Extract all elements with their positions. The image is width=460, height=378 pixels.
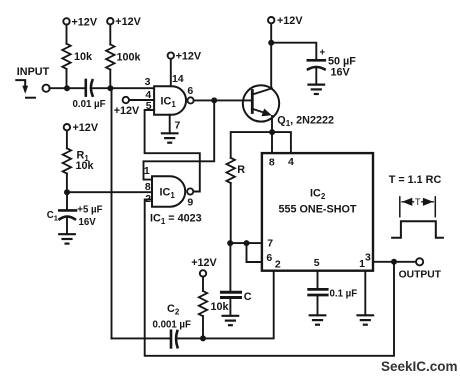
svg-text:3: 3	[145, 76, 151, 88]
svg-text:5: 5	[146, 100, 152, 112]
svg-text:+12V: +12V	[73, 122, 99, 134]
svg-text:9: 9	[187, 197, 193, 209]
wire C to ground	[229, 299, 231, 316]
wire to bottom 10k	[202, 277, 204, 291]
svg-text:T: T	[415, 197, 421, 207]
wire pin 6 branch	[247, 243, 262, 262]
ground 0.1uF	[310, 315, 326, 324]
svg-text:+12V: +12V	[191, 257, 217, 269]
wire node down to C2	[111, 88, 113, 338]
svg-text:+12V: +12V	[72, 16, 98, 28]
Q1 emitter diagonal	[252, 109, 266, 113]
pin 14 +12V terminal	[168, 52, 174, 58]
input terminal	[43, 85, 50, 92]
svg-text:+12V: +12V	[115, 16, 141, 28]
wire node to C	[229, 243, 231, 291]
wire 555 pin 3 to output	[373, 261, 416, 263]
ground C1	[59, 234, 75, 243]
svg-text:+12V: +12V	[176, 51, 202, 63]
Q1 emitter arrowhead	[262, 109, 272, 117]
svg-text:10k: 10k	[76, 160, 95, 172]
wire feedback gate1out to gate2 pin1	[144, 100, 215, 179]
svg-text:IC1 = 4023: IC1 = 4023	[150, 213, 202, 227]
wire 100k to node	[109, 70, 111, 89]
ground C	[223, 316, 239, 325]
svg-text:16V: 16V	[331, 66, 351, 78]
svg-text:4: 4	[288, 156, 294, 168]
waveform tick right	[434, 197, 436, 217]
Q1 collector diagonal	[252, 88, 272, 94]
555 pin 1 wire	[364, 271, 366, 316]
wire node to C1	[66, 192, 68, 209]
resistor R1 10k	[63, 148, 71, 173]
ground gate1 pin7	[162, 133, 178, 142]
+12V terminal collector	[268, 17, 274, 23]
node emitter/R/pin8/pin4	[269, 129, 275, 135]
svg-text:R: R	[237, 164, 245, 176]
wire cap to gate1 pin3	[92, 87, 154, 89]
wire emitter node to R	[231, 132, 272, 158]
555 pin 5 wire	[317, 271, 319, 288]
wire pin 14	[170, 59, 172, 86]
node gate1 out / base / feedback	[211, 97, 217, 103]
output terminal	[416, 258, 423, 265]
svg-text:16V: 16V	[79, 217, 97, 228]
IC2 555 box	[262, 153, 373, 271]
wire +12V to 10k	[66, 25, 68, 44]
node cap/100k	[107, 85, 113, 91]
wire 50uF to ground	[315, 68, 317, 85]
svg-text:5: 5	[314, 257, 320, 269]
svg-text:0.001 µF: 0.001 µF	[153, 320, 192, 331]
ground 50uF	[309, 85, 325, 94]
wire +12V to 100k	[109, 25, 111, 45]
svg-text:14: 14	[172, 73, 184, 85]
svg-text:10k: 10k	[211, 301, 230, 313]
capacitor 0.1uF	[309, 289, 328, 295]
waveform dimension arrows	[402, 201, 433, 203]
capacitor C1 +5uF 16V	[59, 210, 76, 219]
svg-text:+: +	[319, 47, 325, 58]
svg-text:+5 µF: +5 µF	[77, 204, 102, 215]
wire C1 to ground	[66, 218, 68, 235]
svg-text:8: 8	[269, 157, 275, 169]
svg-text:6: 6	[266, 252, 272, 264]
svg-text:100k: 100k	[117, 51, 142, 63]
svg-text:0.01 µF: 0.01 µF	[73, 99, 106, 110]
+12V terminal bottom 10k	[200, 270, 206, 276]
Q1 base bar	[251, 91, 254, 113]
pin 4 +12V terminal	[123, 97, 129, 103]
gate1 output bubble	[188, 97, 194, 103]
svg-text:OUTPUT: OUTPUT	[399, 269, 442, 280]
wire R1 to node	[66, 174, 68, 193]
wire to R1	[66, 131, 68, 149]
svg-text:1: 1	[144, 165, 150, 177]
op: NAND gate U1a body	[154, 86, 186, 115]
wire pin4	[129, 99, 154, 101]
node collector/50uF	[268, 40, 274, 46]
node output feedback	[391, 259, 397, 265]
wire C2 line right to 555 pin 2	[178, 271, 274, 339]
svg-text:3: 3	[365, 252, 371, 264]
waveform T label	[414, 197, 421, 206]
resistor R	[227, 158, 235, 183]
wire 10k to input node	[66, 69, 68, 88]
wire input to cap	[49, 87, 84, 89]
waveform tick left	[399, 197, 401, 217]
svg-text:7: 7	[267, 238, 273, 250]
wire R down to pin7 node	[230, 183, 232, 243]
resistor 10k bottom	[199, 291, 207, 316]
waveform pulse	[392, 221, 443, 238]
capacitor C2 0.001uF	[171, 331, 178, 348]
svg-text:+12V: +12V	[114, 105, 140, 117]
wire gate1 output to transistor base	[194, 99, 253, 101]
resistor 100k	[106, 44, 114, 69]
svg-text:8: 8	[145, 181, 151, 193]
svg-text:SeekIC.com: SeekIC.com	[381, 359, 458, 374]
capacitor 0.01 uF	[86, 80, 93, 96]
resistor 10k (input pullup)	[62, 44, 70, 69]
capacitor 50uF 16V	[308, 60, 325, 69]
svg-text:+12V: +12V	[277, 15, 303, 27]
pin 2 wire to output feedback	[145, 200, 394, 356]
node 10k/C2	[200, 335, 206, 341]
pin 8 wire from R1/C1 node	[67, 191, 152, 193]
wire emitter node to 555 pin 4	[272, 132, 291, 153]
wire emitter node to 555 pin 8	[271, 132, 273, 153]
+12V terminal (100k)	[107, 18, 113, 24]
wire to 50uF	[271, 43, 316, 59]
wire pin 7	[230, 242, 262, 244]
svg-text:C: C	[244, 291, 252, 303]
svg-text:2: 2	[145, 193, 151, 205]
svg-text:T = 1.1 RC: T = 1.1 RC	[389, 174, 442, 186]
pin 5 wire from feedback	[145, 110, 200, 192]
node pin6 branch	[244, 240, 250, 246]
wire C2 line left	[112, 337, 170, 339]
wire emitter down	[271, 116, 273, 132]
node R1/C1/pin8	[64, 189, 70, 195]
transistor Q1 circle	[243, 85, 279, 121]
svg-text:2: 2	[275, 258, 281, 270]
input trigger falling-edge symbol	[16, 80, 35, 98]
capacitor C	[222, 292, 241, 297]
node R/C/pin7	[227, 240, 233, 246]
svg-text:0.1 µF: 0.1 µF	[330, 288, 358, 299]
wire 0.1uF to ground	[317, 297, 319, 316]
node input/10k	[64, 85, 70, 91]
gate2 output bubble	[187, 188, 193, 194]
svg-text:10k: 10k	[74, 51, 93, 63]
NAND gate U1b body	[152, 176, 185, 207]
svg-text:INPUT: INPUT	[17, 66, 50, 78]
svg-text:7: 7	[175, 119, 181, 131]
svg-text:6: 6	[187, 85, 193, 97]
ground 555 pin1	[358, 315, 374, 324]
svg-text:555 ONE-SHOT: 555 ONE-SHOT	[279, 204, 357, 216]
+12V terminal (10k pullup)	[63, 18, 69, 24]
wire 10k to C2 line	[202, 316, 204, 338]
+12V terminal R1	[64, 124, 70, 130]
pin 7 stem	[169, 115, 171, 134]
wire collector rail	[270, 24, 272, 89]
